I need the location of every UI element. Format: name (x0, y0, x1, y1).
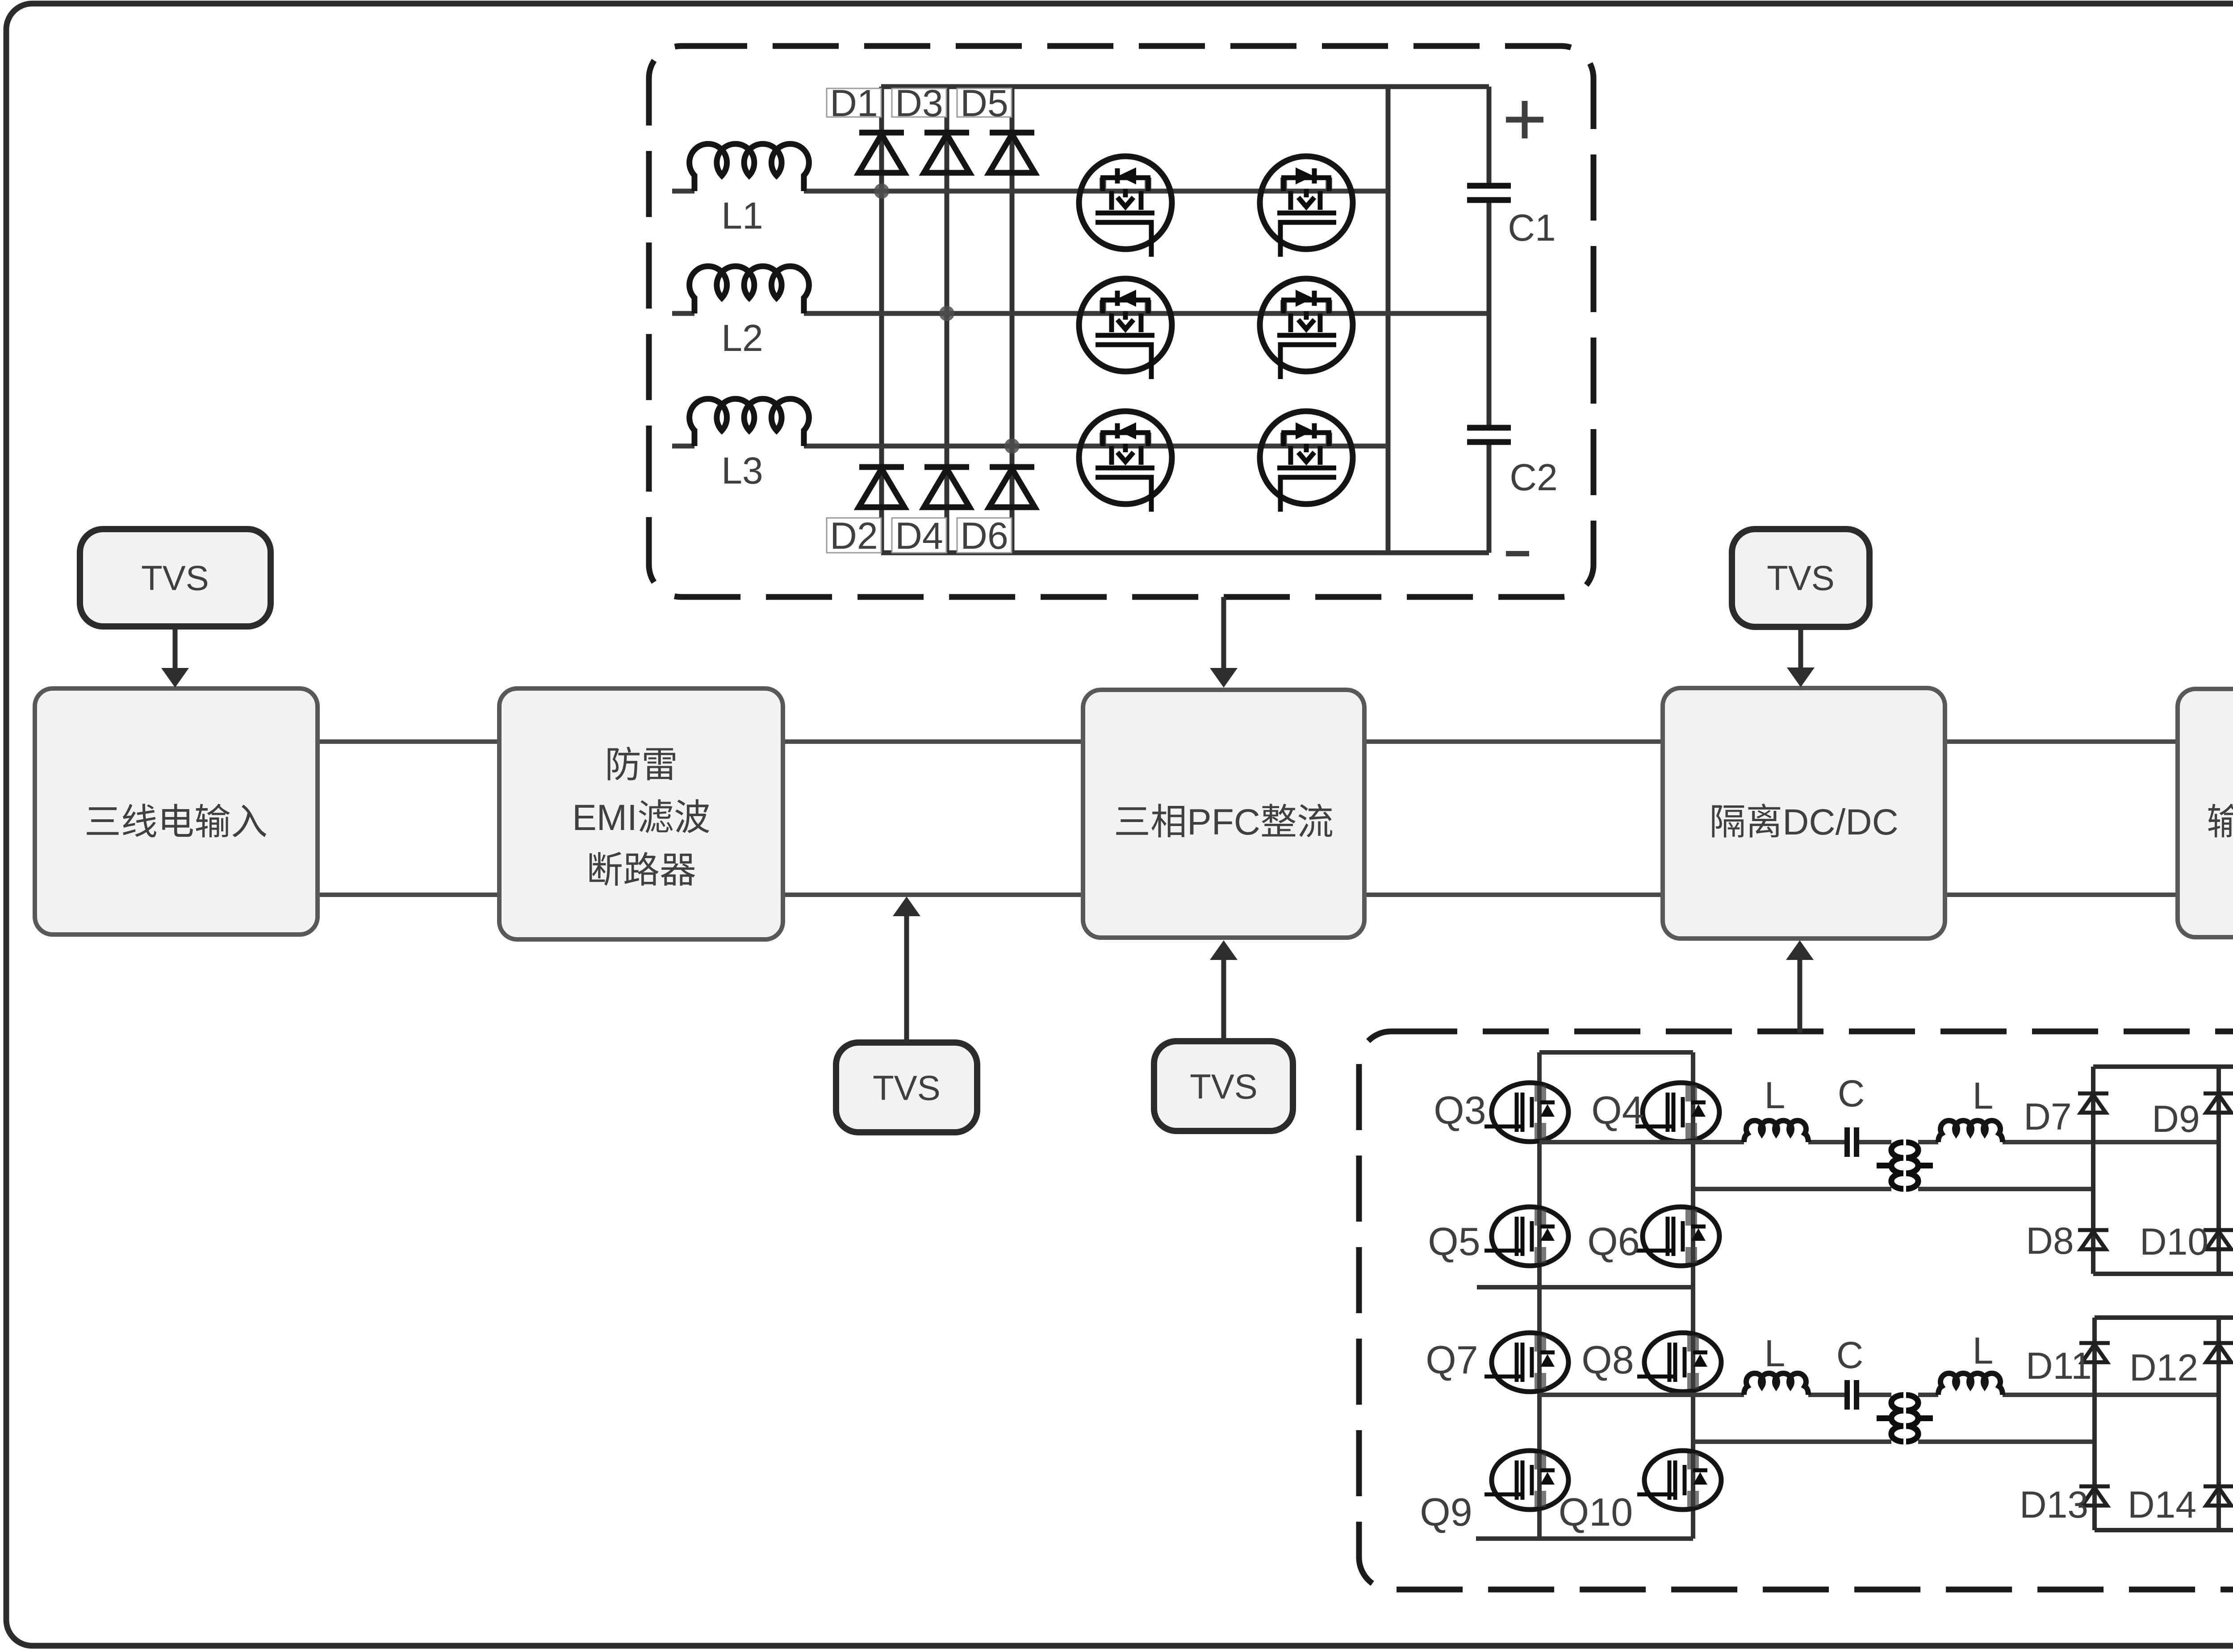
wire secondary 2 top (1918, 1393, 2219, 1397)
inductor L1 (690, 144, 809, 191)
junction node phase B / D3 leg (939, 306, 954, 321)
label - (DC bus negative) (1506, 551, 1529, 556)
TVS box above 隔离DC/DC (1732, 529, 1869, 627)
wire rectifier1 bottom rail (2093, 1272, 2233, 1276)
wire bridge bottom rail (1476, 1536, 1693, 1541)
svg-text:TVS: TVS (1767, 559, 1835, 598)
diode D14 (2204, 1486, 2233, 1506)
inductor L secondary 1 (1938, 1121, 2003, 1142)
svg-text:D2: D2 (830, 515, 878, 557)
wire phase A (L1 row) (672, 189, 1388, 194)
arrow TVS to 隔离DC/DC (1787, 627, 1815, 687)
svg-text:C1: C1 (1508, 207, 1556, 249)
inductor L secondary 2 (1938, 1373, 2003, 1395)
wire secondary 1 top (1918, 1140, 2219, 1144)
wire bus block1-block2 upper (318, 739, 499, 744)
diode D2 (859, 467, 904, 507)
wire full-bridge right leg (1691, 1052, 1695, 1539)
svg-text:D4: D4 (895, 515, 943, 557)
diode D11 (2079, 1343, 2110, 1362)
svg-text:D14: D14 (2128, 1484, 2196, 1526)
svg-text:L: L (1765, 1074, 1786, 1116)
wire diode leg D5/D6 (1010, 87, 1015, 553)
label D4 (892, 515, 946, 557)
block 三线电输入 (three-wire mains input) (35, 688, 318, 934)
MOSFET Q8 (1637, 1333, 1721, 1392)
inductor L2 (690, 266, 809, 313)
diode D9 (2204, 1093, 2233, 1113)
arrow from PFC detail box down to 三相PFC整流 (1210, 597, 1238, 688)
svg-text:TVS: TVS (873, 1068, 941, 1108)
wire primary 1 top (1539, 1140, 1891, 1144)
MOSFET Q5 (1484, 1207, 1568, 1266)
MOSFET Q PFC row1 left (1079, 156, 1172, 257)
arrow from DC/DC detail box up to 隔离DC/DC (1786, 940, 1814, 1033)
wire phase B (L2 row) (672, 311, 1489, 316)
wire output - rail (2095, 1528, 2233, 1532)
svg-text:TVS: TVS (1190, 1067, 1258, 1106)
wire secondary 2 return (1918, 1439, 2095, 1444)
inductor L resonant 2 (1744, 1373, 1808, 1395)
svg-text:Q10: Q10 (1559, 1490, 1633, 1534)
label + (DC bus positive) (1506, 101, 1543, 138)
svg-text:PFC: PFC (1187, 802, 1260, 843)
svg-text:D5: D5 (960, 82, 1008, 124)
svg-text:Q7: Q7 (1426, 1338, 1478, 1382)
block 防雷/EMI滤波/断路器 (surge protect, EMI filter, breaker) (499, 688, 783, 939)
wire secondary 1 return (1918, 1187, 2093, 1191)
arrow TVS up to bus (893, 897, 920, 1043)
wire bus block3-block4 lower (1364, 893, 1663, 897)
label D2 (827, 515, 881, 557)
transformer T2 (1877, 1395, 1933, 1442)
MOSFET Q PFC row3 right (1260, 411, 1353, 512)
dashed box: isolated DC/DC detail (1359, 1031, 2233, 1589)
diode D4 (924, 467, 970, 507)
wire phase C (L3 row) (672, 444, 1388, 449)
svg-text:L1: L1 (721, 195, 763, 237)
svg-text:Q8: Q8 (1581, 1338, 1634, 1382)
wire full-bridge left leg (1537, 1052, 1542, 1539)
capacitor C resonant 2 (1847, 1380, 1857, 1410)
svg-text:Q3: Q3 (1434, 1088, 1486, 1132)
wire MOSFET drain rail (1386, 87, 1391, 553)
svg-text:L: L (1973, 1330, 1994, 1372)
wire bridge mid rail (1477, 1285, 1693, 1289)
wire primary 1 return (1693, 1187, 1891, 1191)
svg-text:C: C (1838, 1072, 1865, 1114)
wire bus block4-block5 upper (1945, 739, 2178, 744)
diode D10 (2204, 1230, 2233, 1249)
MOSFET Q7 (1484, 1333, 1568, 1392)
wire bus block4-block5 lower (1945, 893, 2178, 897)
svg-text:D12: D12 (2129, 1347, 2198, 1389)
svg-text:D1: D1 (830, 82, 878, 124)
MOSFET Q PFC row2 right (1260, 279, 1353, 379)
svg-text:D7: D7 (2024, 1096, 2071, 1138)
block 隔离DC/DC (isolated DC/DC) (1663, 688, 1945, 939)
arrow TVS up to 三相PFC整流 (1210, 940, 1238, 1041)
MOSFET Q3 (1484, 1083, 1568, 1142)
diode D3 (924, 133, 970, 173)
wire rectifier1 left leg (2091, 1067, 2095, 1274)
wire bus block3-block4 upper (1364, 739, 1663, 744)
svg-text:L2: L2 (721, 317, 763, 359)
label D5 (957, 82, 1012, 124)
svg-text:D6: D6 (960, 515, 1008, 557)
dashed box: PFC rectifier detail (649, 46, 1593, 597)
svg-text:Q9: Q9 (1420, 1490, 1472, 1534)
svg-text:C2: C2 (1510, 456, 1557, 498)
diode D5 (989, 133, 1035, 173)
wire diode leg D1/D2 (879, 87, 884, 553)
wire rectifier1 right leg (2216, 1067, 2221, 1274)
svg-text:D9: D9 (2152, 1098, 2200, 1140)
svg-text:L3: L3 (721, 450, 763, 492)
inductor L3 (690, 399, 809, 446)
wire primary 2 return (1693, 1439, 1891, 1444)
capacitor C1 (1487, 87, 1492, 428)
svg-text:D3: D3 (895, 82, 943, 124)
wire top DC+ rail (881, 84, 1489, 89)
diode D1 (859, 133, 904, 173)
svg-text:DC/DC: DC/DC (1782, 802, 1898, 843)
TVS box below bus block2-block3 (836, 1043, 977, 1132)
svg-text:Q6: Q6 (1587, 1219, 1639, 1264)
svg-text:C: C (1836, 1334, 1864, 1376)
wire bottom DC- rail (881, 551, 1489, 555)
label D1 (827, 82, 881, 124)
svg-text:D10: D10 (2140, 1221, 2208, 1263)
MOSFET Q10 (1637, 1451, 1721, 1510)
diode D13 (2079, 1486, 2110, 1506)
wire bridge top rail (1539, 1050, 1693, 1055)
arrow TVS to 三线电输入 (161, 626, 189, 688)
MOSFET Q4 (1635, 1083, 1719, 1142)
label D3 (892, 82, 946, 124)
MOSFET Q PFC row1 right (1260, 156, 1353, 257)
capacitor C2 (1487, 442, 1492, 553)
wire rectifier2 top rail (2095, 1315, 2233, 1320)
diode D7 (2078, 1093, 2108, 1113)
inductor L resonant 1 (1744, 1121, 1808, 1142)
wire bus block2-block3 upper (783, 739, 1083, 744)
diode D12 (2204, 1343, 2233, 1362)
TVS box above 三线电输入 (80, 529, 271, 626)
MOSFET Q6 (1635, 1207, 1719, 1266)
capacitor C resonant 1 (1847, 1127, 1857, 1157)
TVS box below 三相PFC整流 (1154, 1041, 1293, 1131)
MOSFET Q PFC row2 left (1079, 279, 1172, 379)
svg-text:TVS: TVS (141, 559, 209, 598)
wire rectifier2 right leg (2216, 1318, 2221, 1530)
svg-text:EMI: EMI (572, 797, 637, 838)
diode D8 (2078, 1230, 2108, 1249)
svg-text:Q4: Q4 (1591, 1088, 1643, 1132)
wire primary 2 top (1539, 1393, 1891, 1397)
label D6 (957, 515, 1012, 557)
svg-text:D8: D8 (2026, 1220, 2074, 1262)
svg-text:D11: D11 (2026, 1345, 2092, 1387)
junction node phase A / D1 leg (874, 184, 889, 199)
transformer T1 (1877, 1143, 1933, 1189)
wire bus block1-block2 lower (318, 893, 499, 897)
block 三相PFC整流 (three-phase PFC rectifier) (1083, 690, 1364, 938)
junction node phase C / D5 leg (1004, 438, 1020, 454)
MOSFET Q PFC row3 left (1079, 411, 1172, 512)
wire bus block2-block3 lower (783, 893, 1083, 897)
wire rectifier2 left leg (2092, 1318, 2097, 1530)
svg-text:Q5: Q5 (1428, 1219, 1480, 1264)
diode D6 (989, 467, 1035, 507)
wire output + rail (2093, 1067, 2233, 1197)
block 输出控制保护 (output control & protection) (2178, 689, 2233, 937)
svg-text:L: L (1973, 1075, 1994, 1117)
MOSFET Q9 (1484, 1451, 1568, 1510)
svg-text:L: L (1765, 1332, 1786, 1374)
svg-text:D13: D13 (2020, 1484, 2088, 1526)
wire diode leg D3/D4 (945, 87, 949, 553)
